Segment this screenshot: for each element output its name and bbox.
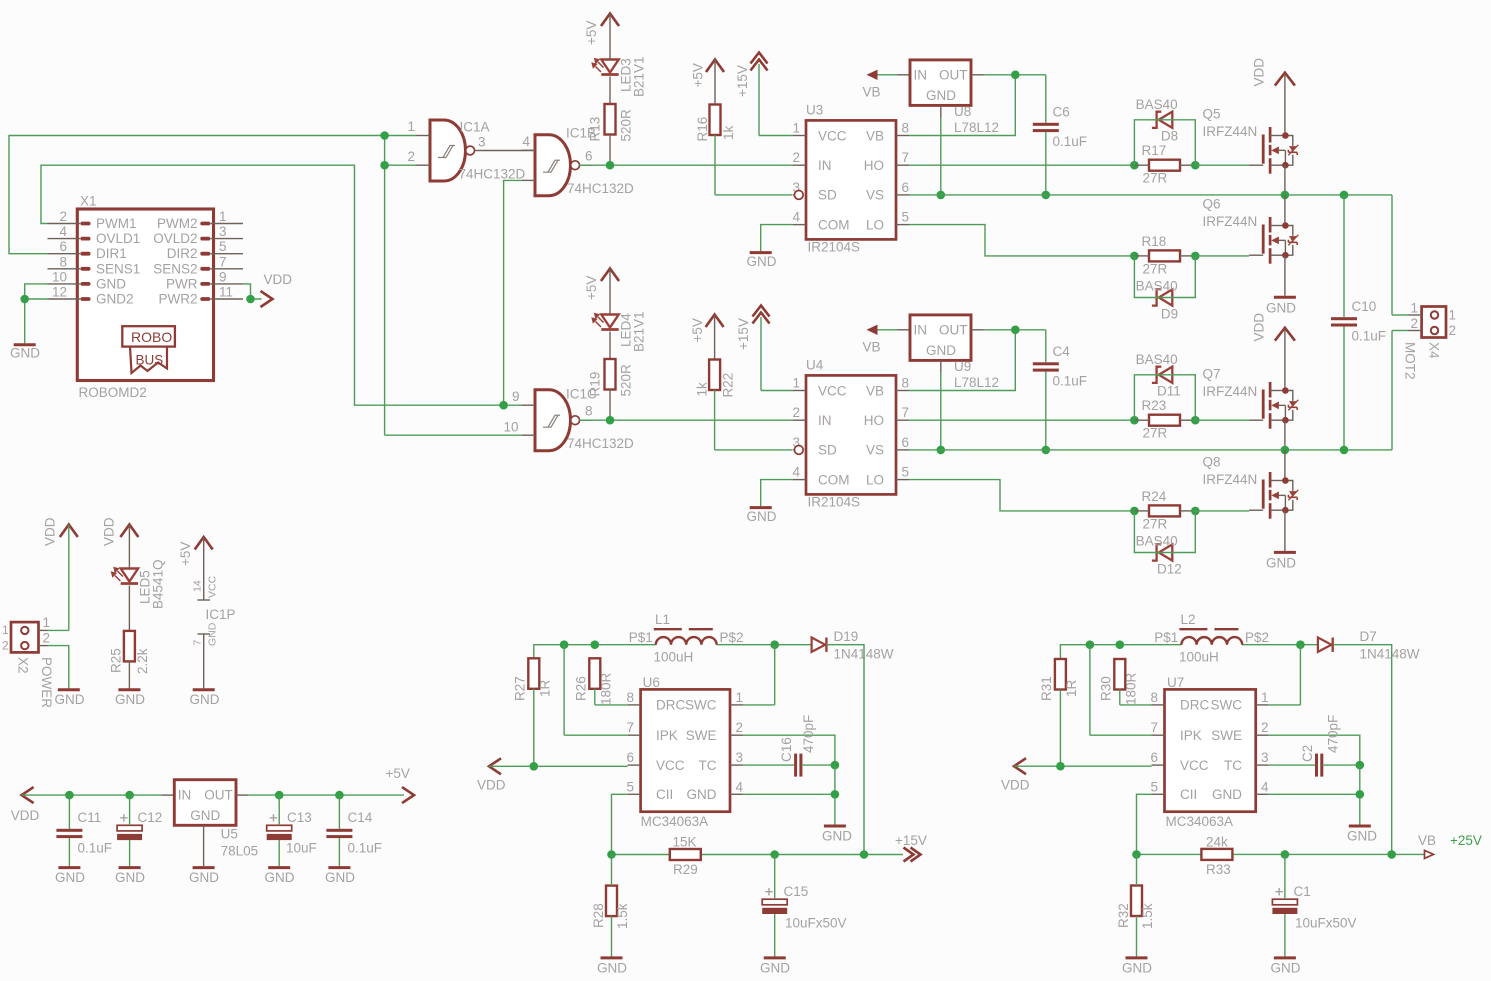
junction top rail 2 at D7/SWC: [1296, 640, 1305, 649]
svg-text:C6: C6: [1053, 105, 1070, 120]
capacitor C6 0.1uF: [1033, 105, 1087, 150]
svg-text:27R: 27R: [1143, 171, 1168, 186]
svg-text:P$2: P$2: [1245, 630, 1269, 645]
wire IC1A output to IC1B input: [474, 150, 535, 152]
wire U6 CII pin5 to feedback: [612, 794, 628, 854]
wire R26 to U6 DRC pin8: [595, 689, 628, 705]
svg-text:5: 5: [626, 779, 634, 794]
svg-text:COM: COM: [818, 472, 850, 487]
junction feedback at D19 output: [860, 850, 869, 859]
svg-text:3: 3: [736, 750, 744, 765]
wire U6 GND pin4 to ground: [743, 765, 835, 824]
svg-text:GND: GND: [10, 346, 40, 361]
svg-text:9: 9: [512, 389, 520, 404]
svg-text:1: 1: [2, 623, 9, 637]
svg-text:8: 8: [1150, 690, 1158, 705]
junction feedback at R32: [1132, 850, 1141, 859]
svg-text:BAS40: BAS40: [1136, 533, 1178, 548]
resistor R31 1R: [1039, 659, 1079, 701]
wire LED4 to R19: [609, 332, 611, 360]
svg-text:PWM1: PWM1: [96, 216, 137, 231]
junction top rail at R26: [591, 640, 600, 649]
svg-text:2.2k: 2.2k: [135, 648, 150, 674]
svg-text:IN: IN: [914, 67, 928, 82]
wire VB node down to U4 VB pin8: [909, 330, 1015, 391]
svg-text:27R: 27R: [1143, 262, 1168, 277]
nand gate IC1B: [522, 126, 634, 197]
svg-text:D19: D19: [834, 629, 859, 644]
svg-text:4: 4: [792, 465, 800, 480]
wire net VS2: [909, 331, 1408, 450]
diode D11 BAS40: [1136, 352, 1181, 399]
wire IPK net to U7 pin7: [1090, 645, 1152, 736]
power VDD arrow above Q5: [1252, 58, 1295, 87]
svg-text:BUS: BUS: [136, 353, 164, 368]
svg-text:U8: U8: [954, 104, 971, 119]
svg-text:470pF: 470pF: [801, 715, 816, 753]
junction feedback at R28: [607, 850, 616, 859]
svg-text:OVLD2: OVLD2: [153, 231, 197, 246]
ground symbol below R25: [115, 690, 145, 707]
resistor R22 1k: [695, 360, 736, 398]
svg-text:+15V: +15V: [735, 65, 750, 97]
svg-text:GND: GND: [1266, 301, 1296, 316]
junction U9 OUT: [1011, 326, 1020, 335]
svg-text:PWR: PWR: [166, 276, 198, 291]
svg-text:1: 1: [407, 119, 415, 134]
svg-text:R31: R31: [1039, 676, 1054, 701]
wire R32 leads: [1136, 854, 1138, 956]
svg-text:0.1uF: 0.1uF: [1352, 329, 1387, 344]
svg-text:5: 5: [219, 239, 227, 254]
svg-text:24k: 24k: [1206, 835, 1228, 850]
svg-text:Q8: Q8: [1203, 455, 1221, 470]
wire U6 SWE pin2 loop: [743, 735, 835, 765]
svg-text:OUT: OUT: [204, 788, 233, 803]
svg-text:ROBOMD2: ROBOMD2: [79, 385, 147, 400]
wire net IN1 (IC1B out to U3 IN): [579, 164, 793, 166]
svg-text:SENS2: SENS2: [153, 261, 197, 276]
svg-text:VCC: VCC: [818, 128, 847, 143]
svg-text:0.1uF: 0.1uF: [348, 841, 383, 856]
svg-text:10uFx50V: 10uFx50V: [1295, 916, 1357, 931]
svg-text:11: 11: [219, 285, 233, 300]
junction C2 right: [1356, 761, 1365, 770]
svg-text:2: 2: [792, 150, 800, 165]
svg-text:9: 9: [219, 269, 227, 284]
svg-text:R19: R19: [588, 372, 603, 397]
wire D7 cathode to VB node: [1333, 645, 1392, 855]
svg-text:1: 1: [736, 690, 744, 705]
svg-text:1: 1: [1449, 308, 1457, 323]
svg-text:+25V: +25V: [1450, 833, 1482, 848]
svg-text:6: 6: [902, 435, 910, 450]
svg-text:C16: C16: [779, 737, 794, 762]
svg-text:GND: GND: [55, 870, 85, 885]
ground symbol below Q6: [1266, 297, 1296, 315]
led LED5 B4541Q: [111, 559, 166, 609]
svg-text:X2: X2: [16, 657, 31, 674]
wire D19 cathode to +15V node: [827, 645, 865, 855]
svg-text:PWR2: PWR2: [158, 292, 197, 307]
svg-text:GND: GND: [747, 509, 777, 524]
svg-text:1k: 1k: [695, 382, 710, 397]
svg-text:1k: 1k: [721, 125, 736, 140]
resistor R32 1.5k: [1116, 886, 1155, 930]
junction top rail at IPK: [560, 640, 569, 649]
svg-text:C4: C4: [1053, 344, 1071, 359]
svg-text:1R: 1R: [538, 679, 553, 697]
junction GND2: [20, 295, 29, 304]
svg-text:MOT2: MOT2: [1403, 342, 1418, 380]
wire +5V to R22: [714, 315, 716, 360]
svg-text:C1: C1: [1294, 884, 1311, 899]
svg-text:GND: GND: [760, 961, 790, 976]
ground symbol below U5: [189, 868, 219, 885]
wire net VDD top rail of U7 block: [1060, 645, 1318, 659]
capacitor C14 0.1uF: [326, 810, 382, 856]
svg-text:D8: D8: [1161, 129, 1178, 144]
svg-text:0.1uF: 0.1uF: [78, 841, 113, 856]
svg-text:1: 1: [1410, 301, 1418, 316]
svg-text:27R: 27R: [1143, 517, 1168, 532]
wire Q6 drain from VS1: [1284, 195, 1286, 226]
svg-text:COM: COM: [818, 217, 850, 232]
svg-text:1: 1: [1261, 690, 1269, 705]
junction on DIR1 net at IC1A pin2: [380, 161, 389, 170]
svg-text:GND: GND: [1122, 961, 1152, 976]
svg-text:15K: 15K: [673, 835, 697, 850]
svg-text:OVLD1: OVLD1: [96, 231, 140, 246]
net arrow VDD left of U6: [477, 758, 506, 792]
svg-text:R27: R27: [513, 676, 528, 701]
wire U7 SWE pin2 loop: [1269, 735, 1360, 765]
junction C16 right: [831, 761, 840, 770]
wire net HO2 (U4 HO to R23): [909, 419, 1134, 421]
svg-text:CII: CII: [1180, 787, 1197, 802]
svg-text:IR2104S: IR2104S: [808, 240, 861, 255]
svg-text:8: 8: [585, 404, 593, 419]
svg-text:Q6: Q6: [1203, 197, 1221, 212]
diode D19 1N4148W: [812, 629, 894, 662]
junction VDD rail at C12: [125, 791, 134, 800]
ground symbol below X1: [10, 345, 40, 361]
svg-text:10: 10: [52, 269, 67, 284]
svg-text:C10: C10: [1352, 299, 1377, 314]
svg-text:VDD: VDD: [264, 272, 293, 287]
wire net PWM1: [41, 165, 522, 405]
svg-text:5: 5: [902, 210, 910, 225]
svg-text:R26: R26: [574, 676, 589, 701]
resistor R24 27R: [1134, 489, 1195, 532]
wire U7 GND pin4 to ground: [1269, 765, 1360, 824]
svg-text:IC1P: IC1P: [206, 607, 236, 622]
resistor R33 24k: [1201, 835, 1232, 878]
wire VDD to Q7 drain: [1284, 329, 1286, 391]
svg-text:2: 2: [1261, 720, 1269, 735]
svg-text:PWM2: PWM2: [157, 216, 198, 231]
junction VDD at R27: [530, 762, 539, 771]
svg-text:B21V1: B21V1: [632, 311, 647, 352]
ground symbol below C11: [55, 868, 85, 885]
svg-text:D7: D7: [1360, 629, 1377, 644]
wire C14 leads: [338, 795, 340, 866]
svg-text:LO: LO: [866, 472, 884, 487]
svg-text:+5V: +5V: [690, 318, 705, 342]
svg-text:OUT: OUT: [939, 322, 968, 337]
junction LO1 left of R18: [1130, 252, 1139, 261]
svg-text:6: 6: [626, 750, 634, 765]
svg-text:4: 4: [792, 210, 800, 225]
wire net VS1: [909, 195, 1408, 315]
svg-text:IN: IN: [818, 413, 832, 428]
svg-text:74HC132D: 74HC132D: [567, 181, 634, 196]
junction PWR2/VDD: [246, 295, 255, 304]
junction U7 GND: [1356, 790, 1365, 799]
svg-text:R24: R24: [1142, 489, 1167, 504]
wire D11 parallel loop: [1134, 375, 1195, 420]
wire VB arrow to U8 IN: [878, 74, 911, 76]
svg-text:GND2: GND2: [96, 292, 134, 307]
capacitor C1 10uFx50V: [1272, 884, 1356, 931]
wire net SD2 (R22 to U4 SD): [715, 390, 793, 450]
svg-text:X4: X4: [1427, 342, 1442, 359]
wire +15V to U4 VCC pin1: [761, 317, 793, 391]
junction top rail 2 at R30: [1116, 640, 1125, 649]
capacitor C15 10uFx50V: [762, 884, 846, 931]
wire R31 to VDD row: [1059, 690, 1061, 767]
svg-text:GND: GND: [189, 870, 219, 885]
svg-text:14: 14: [192, 580, 204, 592]
power +5V arrow above LED4: [584, 269, 619, 301]
junction right of R18: [1191, 252, 1200, 261]
svg-text:R16: R16: [695, 117, 710, 142]
svg-text:VS: VS: [866, 443, 884, 458]
svg-text:2: 2: [1449, 323, 1457, 338]
resistor R25 2.2k: [109, 631, 151, 674]
svg-text:4: 4: [736, 779, 744, 794]
svg-text:CII: CII: [656, 787, 673, 802]
wire C1 leads: [1284, 854, 1286, 956]
svg-text:8: 8: [626, 690, 634, 705]
resistor R19 520R: [588, 359, 634, 397]
junction HO2 left of R23: [1130, 416, 1139, 425]
ground symbol below U4: [747, 508, 777, 524]
svg-text:GND: GND: [687, 787, 717, 802]
svg-text:10: 10: [503, 420, 518, 435]
wire X2 pin2 to ground: [48, 646, 69, 689]
svg-text:SWE: SWE: [686, 728, 717, 743]
svg-text:7: 7: [219, 254, 227, 269]
wire LED5 to R25: [128, 586, 130, 631]
wire net VDD at X1 PWR pins: [243, 284, 262, 299]
wire R13 to IN1 net: [609, 135, 611, 166]
wire VDD to LED5: [128, 525, 130, 569]
svg-text:8: 8: [59, 254, 67, 269]
wire gate net to Q6: [1195, 255, 1249, 257]
wire D9 parallel loop: [1134, 256, 1195, 298]
wire R19 to IN2 net: [609, 390, 611, 421]
wire D8 parallel loop: [1134, 120, 1195, 165]
svg-text:R32: R32: [1116, 903, 1131, 928]
svg-text:VB: VB: [866, 128, 884, 143]
svg-text:+5V: +5V: [691, 63, 706, 87]
wire D12 parallel loop: [1134, 511, 1195, 553]
svg-text:100uH: 100uH: [654, 650, 694, 665]
capacitor C13 polarized 10uF: [267, 810, 317, 856]
svg-text:R13: R13: [588, 117, 603, 142]
junction VS1 at C10: [1340, 191, 1349, 200]
svg-text:DRC: DRC: [656, 698, 685, 713]
svg-text:U6: U6: [643, 675, 660, 690]
power +5V arrow above IC1P: [178, 537, 213, 566]
svg-text:MC34063A: MC34063A: [641, 814, 709, 829]
wire U9 OUT to VB node and C4: [984, 329, 1046, 331]
svg-text:IRFZ44N: IRFZ44N: [1203, 214, 1258, 229]
wire IPK net to U6 pin7: [564, 645, 628, 736]
svg-text:D9: D9: [1161, 306, 1178, 321]
transistor Q5 IRFZ44N: [1203, 107, 1299, 174]
svg-text:1.5k: 1.5k: [1140, 903, 1155, 929]
svg-text:L78L12: L78L12: [954, 120, 999, 135]
diode D7 1N4148W: [1318, 629, 1420, 662]
junction VDD at R31: [1056, 762, 1065, 771]
svg-text:R29: R29: [673, 862, 698, 877]
wire net VDD rail to U5 IN: [22, 794, 175, 796]
junction U8 GND to VS1: [937, 191, 946, 200]
junction IN1 at R13: [606, 161, 615, 170]
svg-text:U4: U4: [806, 358, 824, 373]
resistor R28 1.5k: [591, 886, 630, 929]
svg-text:GND: GND: [926, 88, 956, 103]
junction +5V rail at C13: [275, 791, 284, 800]
wire VB node down to U3 VB pin8: [909, 75, 1015, 136]
svg-text:0.1uF: 0.1uF: [1053, 134, 1088, 149]
svg-text:10uF: 10uF: [286, 841, 317, 856]
svg-text:R23: R23: [1142, 398, 1167, 413]
junction on DIR1 net at IC1A pin1: [380, 131, 389, 140]
power +5V arrow above R16: [691, 60, 725, 88]
svg-text:B4541Q: B4541Q: [151, 559, 166, 609]
svg-text:7: 7: [902, 150, 910, 165]
svg-text:LO: LO: [866, 217, 884, 232]
wire U7 TC pin3 to C2: [1269, 764, 1360, 766]
wire R28 leads: [611, 855, 613, 957]
svg-text:GND: GND: [55, 692, 85, 707]
wire net LO2 (U4 LO to R24): [909, 480, 1134, 511]
svg-text:R25: R25: [109, 648, 124, 673]
svg-text:L2: L2: [1181, 612, 1196, 627]
junction VS2 at Q7/Q8: [1281, 446, 1290, 455]
wire gate net to Q8: [1195, 510, 1249, 512]
power +5V arrow above LED3: [584, 14, 619, 46]
svg-text:78L05: 78L05: [221, 843, 259, 858]
wire net DIR1: [9, 136, 522, 436]
wire gate net to Q7: [1195, 419, 1249, 421]
junction LO2 left of R24: [1130, 507, 1139, 516]
svg-text:74HC132D: 74HC132D: [459, 167, 526, 182]
svg-text:D12: D12: [1157, 561, 1182, 576]
led LED3 B21V1: [591, 56, 646, 97]
net arrow VB into U8: [863, 70, 881, 100]
ic IC1P power pins: [192, 537, 236, 688]
svg-text:74HC132D: 74HC132D: [567, 436, 634, 451]
net arrow VDD left of U7: [1001, 758, 1030, 792]
svg-text:GND: GND: [190, 808, 220, 823]
svg-text:GND: GND: [1212, 787, 1242, 802]
wire net +15V feedback row: [612, 854, 904, 856]
net arrow +15V output: [895, 833, 927, 862]
wire VB arrow to U9 IN: [878, 329, 911, 331]
junction right of R17: [1191, 161, 1200, 170]
svg-text:VDD: VDD: [1252, 313, 1267, 342]
svg-text:R28: R28: [591, 903, 606, 928]
svg-text:R18: R18: [1142, 234, 1167, 249]
svg-text:ROBO: ROBO: [131, 329, 172, 345]
svg-text:SD: SD: [818, 443, 837, 458]
svg-text:GND: GND: [190, 692, 220, 707]
ic U9 L78L12: [910, 315, 999, 390]
svg-text:IN: IN: [818, 158, 832, 173]
svg-text:4: 4: [59, 224, 67, 239]
svg-text:2: 2: [792, 405, 800, 420]
svg-text:GND: GND: [265, 870, 295, 885]
svg-text:+15V: +15V: [736, 318, 751, 350]
svg-text:GND: GND: [597, 961, 627, 976]
wire U4 COM to ground: [761, 480, 793, 507]
resistor R16 1k: [695, 105, 736, 142]
svg-text:6: 6: [1150, 750, 1158, 765]
wire Q7 source to VS2: [1284, 420, 1286, 450]
nand gate IC1C: [503, 387, 634, 452]
svg-text:8: 8: [902, 376, 910, 391]
power VDD arrow above Q7: [1252, 313, 1295, 342]
transistor Q8 IRFZ44N: [1203, 455, 1299, 519]
ground symbol below Q8: [1266, 552, 1296, 570]
net arrow VB output: [1418, 833, 1482, 858]
wire U9 GND down to VS2: [940, 373, 942, 450]
svg-text:GND: GND: [822, 829, 852, 844]
svg-text:P$2: P$2: [720, 630, 744, 645]
svg-text:U7: U7: [1167, 675, 1184, 690]
svg-text:GND: GND: [1266, 556, 1296, 571]
svg-text:R22: R22: [721, 373, 736, 398]
svg-text:IC1A: IC1A: [460, 120, 490, 135]
svg-text:B21V1: B21V1: [632, 56, 647, 97]
wire gate net to Q5: [1195, 164, 1249, 166]
net arrow VB into U9: [863, 325, 881, 355]
svg-text:7: 7: [902, 405, 910, 420]
inductor L1 100uH: [629, 612, 744, 665]
svg-text:VS: VS: [866, 188, 884, 203]
capacitor C2 470pF: [1300, 715, 1341, 777]
wire net HO1 (U3 HO to R17): [909, 164, 1134, 166]
wire C13 leads: [278, 795, 280, 866]
svg-text:180R: 180R: [599, 672, 614, 705]
svg-text:BAS40: BAS40: [1136, 352, 1178, 367]
svg-text:3: 3: [219, 224, 227, 239]
svg-text:5: 5: [902, 465, 910, 480]
svg-text:VDD: VDD: [477, 778, 506, 793]
svg-text:DIR2: DIR2: [167, 246, 198, 261]
capacitor C11 0.1uF: [56, 810, 112, 856]
svg-text:IR2104S: IR2104S: [808, 495, 861, 510]
wire VDD to Q5 drain: [1284, 74, 1286, 136]
diode D9 BAS40: [1136, 278, 1179, 321]
svg-text:27R: 27R: [1143, 426, 1168, 441]
svg-text:520R: 520R: [619, 364, 634, 397]
svg-text:GND: GND: [96, 276, 126, 291]
